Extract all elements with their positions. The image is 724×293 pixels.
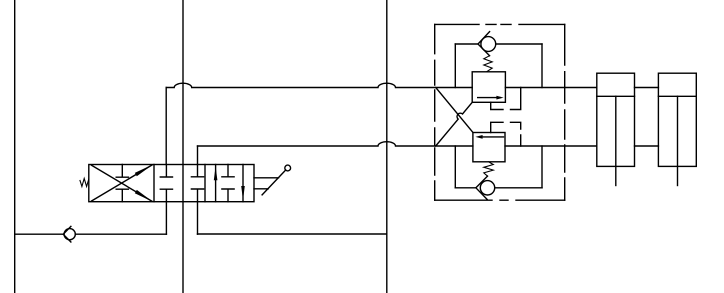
DV position 3 blocked port T top at x=228 [222, 165, 234, 177]
wire: main line A (upper work line) with jumps over verticals [166, 83, 658, 87]
counterbalance block dashed enclosure: bottom edge [435, 199, 565, 201]
DV position 1 crossed arrows [92, 165, 153, 201]
bypass branch upper: right vertical [541, 44, 543, 88]
bypass branch upper: left vertical [454, 44, 456, 88]
wire: valve top port B riser [197, 146, 199, 165]
DV return spring (left side) [80, 179, 89, 187]
counterbalance valve CB1 body [472, 72, 505, 103]
DV lever arm [262, 170, 286, 195]
pilot line diagonal B (from line B to CB1) with jump [436, 102, 473, 146]
wire: main line B (lower work line) with jump over vertical [198, 142, 659, 146]
CB1 drain line to main line A [491, 88, 521, 110]
check valve V3 (lower bypass) seat [476, 176, 488, 199]
cylinder CYL2 rod [677, 96, 679, 185]
DV position 3 straight flow line down-arrow [242, 165, 244, 202]
wire: bottom right line [198, 233, 387, 235]
counterbalance valve CB2 body [473, 133, 505, 162]
DV position 2 blocked port T bottom at x=166.4 [160, 189, 172, 202]
wire: valve top port A riser [165, 88, 167, 165]
cylinder CYL2 piston [658, 95, 696, 97]
bypass branch lower: right vertical [541, 146, 543, 188]
check valve V3 ball [480, 181, 494, 195]
DV position 1 arrowhead upper right [135, 164, 153, 176]
CB2 internal flow line with left arrow [481, 136, 504, 138]
cylinder CYL2 body [658, 73, 696, 166]
DV position 3 straight flow line up-arrow [215, 165, 217, 202]
DV position 1 arrowhead lower right [135, 190, 153, 202]
wire: right vertical line x=386.8 [386, 0, 388, 293]
counterbalance block dashed enclosure: right edge [564, 24, 566, 200]
counterbalance block dashed enclosure: left edge [434, 24, 436, 200]
DV position 3 blocked port T bottom at x=228 [222, 189, 234, 202]
DV position 1 blocked port T top [116, 165, 128, 178]
wire: valve bottom right port drop [197, 202, 199, 235]
check valve V1 (bottom left) seat [63, 226, 71, 242]
cylinder CYL1 piston [597, 95, 635, 97]
DV lever knob [285, 165, 291, 171]
bypass branch lower: bottom line with check valve gap [455, 187, 542, 189]
check valve V1 ball [64, 229, 75, 240]
counterbalance block dashed enclosure: top edge [435, 23, 565, 25]
CB1 internal flow line with right arrow [478, 97, 500, 99]
directional valve DV body [89, 165, 254, 202]
check valve V2 ball [481, 37, 496, 52]
wire: center vertical line x=183 [182, 0, 184, 293]
DV position 2 blocked port T bottom at x=197.5 [191, 189, 203, 202]
CB2 pilot line from top (dashed) [491, 122, 521, 146]
bypass branch lower: left vertical [454, 146, 456, 188]
cylinder CYL1 body [597, 73, 635, 166]
DV lever stubs [254, 178, 279, 189]
DV position 2 blocked port T top at x=166.4 [160, 165, 172, 178]
bypass branch upper: top line with check valve gap [455, 43, 542, 45]
pilot line diagonal A (from line A to CB2) [436, 88, 473, 133]
spring of counterbalance valve CB2 [484, 162, 494, 176]
wire: bottom left line to tank [15, 233, 167, 235]
DV position 2 blocked port T top at x=197.5 [191, 165, 203, 177]
DV position 1 blocked port T bottom [116, 189, 128, 202]
directional valve box divider 1 [153, 165, 155, 202]
check valve V2 (upper bypass) seat [478, 32, 490, 56]
wire: valve bottom left port drop [165, 202, 167, 235]
cylinder CYL1 rod [615, 96, 617, 185]
directional valve box divider 2 [204, 165, 206, 202]
wire: left vertical tank line [14, 0, 16, 293]
spring of counterbalance valve CB1 [484, 56, 492, 72]
